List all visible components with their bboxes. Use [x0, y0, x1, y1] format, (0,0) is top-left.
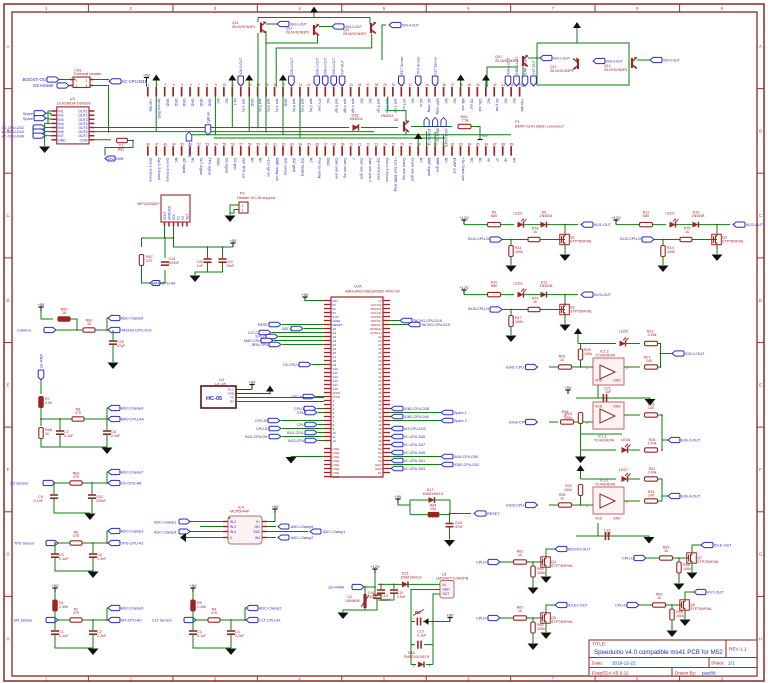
- svg-text:NC: NC: [216, 99, 220, 105]
- svg-text:(O2 gnd): (O2 gnd): [292, 158, 296, 172]
- svg-text:VEX: VEX: [186, 213, 190, 220]
- svg-text:IAT-CPU-A0: IAT-CPU-A0: [121, 619, 142, 623]
- svg-text:TITLE:: TITLE:: [592, 642, 606, 648]
- svg-text:GND: GND: [333, 475, 341, 479]
- svg-text:EVAP out: EVAP out: [453, 158, 457, 173]
- svg-text:IAT-CPU-D43: IAT-CPU-D43: [404, 427, 426, 431]
- svg-text:1uF: 1uF: [605, 390, 612, 394]
- svg-text:4: 4: [586, 504, 588, 508]
- svg-text:V2: V2: [181, 216, 185, 220]
- svg-text:LM2940T-5.0NOPB: LM2940T-5.0NOPB: [436, 576, 469, 580]
- svg-text:BOOST-OUT: BOOST-OUT: [568, 548, 591, 552]
- svg-text:spd 1 Inj: spd 1 Inj: [275, 99, 279, 113]
- svg-text:MIL out: MIL out: [461, 99, 465, 111]
- svg-text:G: G: [6, 552, 9, 557]
- svg-text:39: 39: [468, 83, 472, 87]
- svg-text:68: 68: [332, 142, 336, 146]
- svg-text:28: 28: [375, 83, 379, 87]
- svg-text:71: 71: [358, 142, 362, 146]
- svg-text:3.9k: 3.9k: [45, 401, 52, 405]
- svg-text:ADC-Clamp4: ADC-Clamp4: [121, 407, 143, 411]
- svg-text:IN4: IN4: [255, 536, 260, 540]
- svg-text:55: 55: [223, 142, 227, 146]
- svg-text:1N4004: 1N4004: [540, 214, 553, 218]
- svg-text:VVT out: VVT out: [402, 99, 406, 112]
- svg-text:2N4003: 2N4003: [381, 114, 394, 118]
- svg-text:1: 1: [76, 79, 78, 83]
- svg-text:(O2 pump): (O2 pump): [284, 158, 288, 175]
- svg-text:470: 470: [146, 259, 152, 263]
- svg-text:ADC-Clamp1: ADC-Clamp1: [154, 520, 176, 524]
- svg-text:1k: 1k: [533, 230, 537, 234]
- svg-text:External header: External header: [74, 71, 102, 76]
- svg-text:1N4008: 1N4008: [692, 214, 705, 218]
- svg-text:12v-RAW: 12v-RAW: [107, 156, 124, 161]
- svg-text:IGN3-CPU-D52: IGN3-CPU-D52: [454, 463, 479, 467]
- svg-text:O2 Sensor: O2 Sensor: [10, 482, 29, 486]
- svg-text:VVT-OUT: VVT-OUT: [341, 60, 345, 74]
- svg-text:INJ1-CPU-D8: INJ1-CPU-D8: [468, 237, 491, 241]
- svg-text:F: F: [759, 467, 762, 472]
- svg-text:47nF: 47nF: [455, 525, 464, 529]
- svg-text:84: 84: [468, 142, 472, 146]
- svg-text:1N4004: 1N4004: [349, 117, 362, 121]
- svg-text:ADC-Clamp6: ADC-Clamp6: [121, 607, 143, 611]
- svg-text:IDLE-OUT: IDLE-OUT: [714, 544, 732, 548]
- svg-text:V-: V-: [230, 536, 233, 540]
- svg-text:47: 47: [155, 142, 159, 146]
- svg-text:2.49k: 2.49k: [647, 333, 656, 337]
- svg-text:1: 1: [242, 204, 244, 208]
- svg-text:GND: GND: [326, 158, 330, 166]
- svg-text:0.1uF: 0.1uF: [197, 634, 207, 638]
- svg-text:100k: 100k: [537, 627, 545, 631]
- svg-text:H: H: [759, 636, 762, 641]
- svg-text:470: 470: [211, 611, 217, 615]
- svg-text:15-ROM 71: 15-ROM 71: [427, 129, 431, 146]
- svg-text:74: 74: [383, 142, 387, 146]
- svg-text:8: 8: [207, 83, 209, 87]
- svg-text:GND: GND: [199, 99, 203, 107]
- svg-text:Cyl 4-6 Knock: Cyl 4-6 Knock: [377, 158, 381, 181]
- svg-text:COM: COM: [80, 138, 88, 142]
- svg-text:100k: 100k: [515, 250, 523, 254]
- svg-text:43: 43: [501, 83, 505, 87]
- svg-text:Gnd 1-3 Knock: Gnd 1-3 Knock: [148, 158, 152, 182]
- svg-text:7: 7: [351, 158, 355, 160]
- svg-text:56: 56: [231, 142, 235, 146]
- svg-text:LED7: LED7: [619, 468, 628, 472]
- svg-text:G8: G8: [394, 118, 399, 122]
- svg-text:61: 61: [273, 142, 277, 146]
- svg-text:MCP6044P: MCP6044P: [230, 510, 250, 514]
- svg-text:spd 2 Ign: spd 2 Ign: [351, 99, 355, 114]
- svg-text:AC relay: AC relay: [427, 99, 431, 113]
- svg-text:TPS-CPU-A2: TPS-CPU-A2: [121, 542, 144, 546]
- svg-text:IDLE2-OUT: IDLE2-OUT: [568, 604, 589, 608]
- svg-text:72: 72: [366, 142, 370, 146]
- svg-text:Crank sen gnd: Crank sen gnd: [410, 158, 414, 181]
- svg-text:TC4424EPA: TC4424EPA: [595, 354, 616, 358]
- svg-text:+5v Crank sen: +5v Crank sen: [461, 158, 465, 181]
- svg-text:1.1: 1.1: [740, 647, 747, 652]
- svg-text:NC: NC: [453, 99, 457, 105]
- svg-text:73: 73: [375, 142, 379, 146]
- svg-text:4: 4: [86, 84, 88, 88]
- svg-text:+5V: +5V: [143, 72, 151, 77]
- svg-text:1N5819WLG: 1N5819WLG: [400, 575, 421, 579]
- svg-text:+5V: +5V: [301, 292, 309, 297]
- svg-text:1uF: 1uF: [197, 264, 204, 268]
- svg-text:STP75NF06L: STP75NF06L: [551, 620, 573, 624]
- svg-text:2: 2: [242, 209, 244, 213]
- svg-text:VVT-OUT: VVT-OUT: [532, 60, 536, 74]
- svg-text:48: 48: [163, 142, 167, 146]
- svg-text:GND: GND: [191, 99, 195, 107]
- svg-text:NC: NC: [250, 158, 254, 164]
- svg-text:69: 69: [341, 142, 345, 146]
- svg-text:60: 60: [265, 142, 269, 146]
- svg-text:Oil p sw: Oil p sw: [495, 99, 499, 112]
- svg-text:A: A: [759, 44, 762, 49]
- svg-text:470: 470: [73, 534, 79, 538]
- svg-text:MPX4250AP: MPX4250AP: [137, 202, 159, 206]
- svg-text:TACHO-CPU-D19: TACHO-CPU-D19: [121, 329, 152, 333]
- svg-text:+5V: +5V: [248, 379, 256, 384]
- svg-text:Speeduino v4.0 compatible ms41: Speeduino v4.0 compatible ms41 PCB for M…: [594, 649, 723, 656]
- svg-text:+5V: +5V: [37, 302, 45, 307]
- svg-text:37: 37: [451, 83, 455, 87]
- svg-text:80: 80: [434, 142, 438, 146]
- svg-text:ISLNVSON3P3: ISLNVSON3P3: [550, 69, 573, 73]
- svg-text:I/C-CPU-D47: I/C-CPU-D47: [404, 443, 425, 447]
- svg-text:58: 58: [248, 142, 252, 146]
- svg-text:1k: 1k: [518, 553, 522, 557]
- svg-text:O2 signal: O2 signal: [225, 158, 229, 173]
- svg-text:53: 53: [206, 142, 210, 146]
- svg-text:Date:: Date:: [592, 661, 603, 666]
- svg-text:63: 63: [290, 142, 294, 146]
- svg-text:0.5uF: 0.5uF: [397, 595, 406, 599]
- svg-text:IGN2-CPU-D38: IGN2-CPU-D38: [404, 407, 429, 411]
- svg-text:52: 52: [197, 142, 201, 146]
- svg-text:B: B: [759, 129, 762, 134]
- svg-text:GND: GND: [613, 379, 621, 383]
- svg-text:75: 75: [392, 142, 396, 146]
- svg-text:0.1uF: 0.1uF: [59, 634, 69, 638]
- svg-text:29: 29: [383, 83, 387, 87]
- svg-text:14E680K: 14E680K: [345, 599, 361, 603]
- svg-text:ADC-Clamp6: ADC-Clamp6: [291, 525, 313, 529]
- svg-text:Cam sen pwr: Cam sen pwr: [334, 158, 338, 180]
- svg-text:1k: 1k: [45, 432, 49, 436]
- svg-text:100k: 100k: [667, 250, 675, 254]
- svg-text:Cam sen sig: Cam sen sig: [343, 158, 347, 178]
- svg-text:EKP relay: EKP relay: [436, 99, 440, 115]
- svg-text:1k: 1k: [560, 497, 564, 501]
- svg-text:TC4424EPA: TC4424EPA: [595, 483, 616, 487]
- svg-text:IN-5: IN-5: [230, 530, 236, 534]
- svg-text:+5V: +5V: [394, 494, 402, 499]
- svg-text:2.2nF: 2.2nF: [235, 634, 245, 638]
- svg-text:1k: 1k: [685, 230, 689, 234]
- svg-text:spd 5 Inj: spd 5 Inj: [258, 99, 262, 113]
- svg-text:STP75NF06L: STP75NF06L: [722, 239, 744, 243]
- svg-text:2.2nF: 2.2nF: [97, 557, 107, 561]
- svg-text:VOUT: VOUT: [163, 211, 167, 220]
- svg-text:I/C-CPU-D45: I/C-CPU-D45: [404, 435, 425, 439]
- svg-text:V+: V+: [256, 520, 260, 524]
- svg-text:NC: NC: [478, 158, 482, 164]
- svg-text:C: C: [759, 213, 762, 218]
- svg-text:NC: NC: [410, 99, 414, 105]
- svg-text:IGN-1-OUT: IGN-1-OUT: [553, 57, 570, 61]
- svg-text:86: 86: [485, 142, 489, 146]
- svg-text:50: 50: [180, 142, 184, 146]
- svg-text:GND: GND: [174, 99, 178, 107]
- svg-text:INJ2-OUT: INJ2-OUT: [746, 223, 764, 227]
- svg-text:NC: NC: [503, 99, 507, 105]
- svg-text:LED3: LED3: [513, 282, 522, 286]
- svg-text:IGN-3-OUT: IGN-3-OUT: [239, 58, 243, 75]
- svg-text:+5V: +5V: [229, 238, 237, 243]
- svg-text:100k: 100k: [584, 352, 592, 356]
- svg-text:TPS signal: TPS signal: [208, 158, 212, 176]
- svg-text:2.2nF: 2.2nF: [111, 434, 121, 438]
- svg-text:1k: 1k: [560, 358, 564, 362]
- svg-text:I/C-CPU-D31: I/C-CPU-D31: [122, 79, 147, 84]
- svg-text:1k: 1k: [62, 311, 66, 315]
- svg-text:36: 36: [442, 83, 446, 87]
- svg-text:(O2 heater): (O2 heater): [301, 158, 305, 176]
- svg-text:Gnd 4-6 Knock: Gnd 4-6 Knock: [385, 158, 389, 182]
- svg-text:C: C: [6, 213, 9, 218]
- svg-text:47: 47: [495, 158, 499, 162]
- svg-text:100k: 100k: [515, 320, 523, 324]
- svg-text:49: 49: [172, 142, 176, 146]
- svg-text:CLT-CPU-A1: CLT-CPU-A1: [259, 619, 281, 623]
- svg-text:spd 5 Ign: spd 5 Ign: [377, 99, 381, 114]
- svg-text:4: 4: [173, 83, 175, 87]
- svg-text:680: 680: [491, 284, 497, 288]
- svg-text:100k: 100k: [564, 488, 572, 492]
- svg-text:IGN-1-OUT: IGN-1-OUT: [290, 23, 307, 27]
- svg-text:MAF signal: MAF signal: [427, 158, 431, 176]
- svg-text:2018-12-22: 2018-12-22: [612, 661, 636, 666]
- svg-text:IAT Sensor: IAT Sensor: [14, 619, 33, 623]
- svg-text:GND: GND: [613, 517, 621, 521]
- svg-text:+12V: +12V: [459, 285, 469, 290]
- svg-text:46: 46: [147, 142, 151, 146]
- svg-text:IN-2: IN-2: [230, 520, 236, 524]
- svg-text:Cam sen pwr 2: Cam sen pwr 2: [368, 158, 372, 182]
- svg-text:O2-CPU-A8: O2-CPU-A8: [121, 482, 141, 486]
- svg-text:GND: GND: [58, 138, 66, 142]
- svg-text:spd 1 Inj: spd 1 Inj: [241, 99, 245, 113]
- svg-text:STP75NF06L: STP75NF06L: [570, 309, 592, 313]
- svg-text:0.1uF: 0.1uF: [59, 557, 69, 561]
- svg-text:LED1: LED1: [513, 212, 522, 216]
- svg-text:46: 46: [486, 158, 490, 162]
- svg-text:Blank GL: Blank GL: [436, 129, 440, 142]
- svg-text:ISLNVSON3P3: ISLNVSON3P3: [232, 25, 255, 29]
- svg-text:ADC-Clamp1: ADC-Clamp1: [323, 530, 345, 534]
- svg-text:LED5: LED5: [619, 330, 628, 334]
- svg-text:LED2: LED2: [665, 212, 674, 216]
- svg-text:19: 19: [299, 83, 303, 87]
- svg-text:INJ1-OUT: INJ1-OUT: [594, 223, 612, 227]
- svg-text:Spare 2: Spare 2: [454, 419, 467, 423]
- svg-text:77: 77: [408, 142, 412, 146]
- svg-text:ARDUINO-MEGA2560-PRO-5V: ARDUINO-MEGA2560-PRO-5V: [345, 288, 401, 293]
- svg-text:0.1uF: 0.1uF: [34, 499, 44, 503]
- svg-text:STP75NF06L: STP75NF06L: [697, 560, 719, 564]
- svg-text:62: 62: [282, 142, 286, 146]
- svg-text:+Ub Wa: +Ub Wa: [520, 99, 524, 112]
- svg-text:470: 470: [73, 611, 79, 615]
- svg-text:1k: 1k: [518, 609, 522, 613]
- svg-text:NC: NC: [486, 99, 490, 105]
- svg-text:100k: 100k: [676, 614, 684, 618]
- svg-text:Gnd 4-6 Knock: Gnd 4-6 Knock: [165, 158, 169, 182]
- svg-text:IGN-3-OUT: IGN-3-OUT: [324, 58, 328, 75]
- svg-text:48: 48: [503, 158, 507, 162]
- svg-text:64: 64: [299, 142, 303, 146]
- svg-text:Crank-in: Crank-in: [17, 329, 31, 333]
- svg-text:LED6: LED6: [621, 438, 630, 442]
- svg-text:13: 13: [248, 83, 252, 87]
- svg-text:TPS Sensor: TPS Sensor: [417, 56, 421, 75]
- svg-text:+12V: +12V: [459, 215, 469, 220]
- svg-text:32: 32: [408, 83, 412, 87]
- svg-text:1: 1: [147, 83, 149, 87]
- svg-text:2.49k: 2.49k: [647, 442, 656, 446]
- svg-text:INJ3-OUT: INJ3-OUT: [594, 293, 612, 297]
- svg-text:1N1: 1N1: [254, 525, 260, 529]
- svg-text:VCC: VCC: [172, 213, 176, 220]
- svg-text:2: 2: [86, 79, 88, 83]
- svg-text:+5V: +5V: [565, 386, 572, 390]
- svg-text:15: 15: [265, 83, 269, 87]
- svg-text:pazi88: pazi88: [702, 670, 716, 675]
- svg-text:NC: NC: [444, 158, 448, 164]
- svg-text:ADC-Clamp2: ADC-Clamp2: [259, 607, 281, 611]
- svg-text:GND: GND: [182, 99, 186, 107]
- svg-text:Sheet:: Sheet:: [711, 661, 724, 666]
- svg-text:OUT: OUT: [443, 592, 450, 596]
- svg-text:Cyl 1-3 Knock: Cyl 1-3 Knock: [157, 158, 161, 181]
- svg-text:25: 25: [349, 83, 353, 87]
- svg-text:+5V: +5V: [481, 134, 488, 138]
- svg-text:+12v from DME relay: +12v from DME relay: [394, 158, 398, 192]
- svg-text:ULN2803A DS0099: ULN2803A DS0099: [57, 101, 91, 106]
- svg-text:Fuel pu relay: Fuel pu relay: [317, 158, 321, 179]
- svg-text:STP75NF06L: STP75NF06L: [570, 239, 592, 243]
- svg-text:GND: GND: [250, 99, 254, 107]
- svg-text:1k: 1k: [87, 322, 91, 326]
- svg-text:RX: RX: [230, 400, 234, 404]
- svg-text:NC: NC: [368, 99, 372, 105]
- svg-text:ADC-Clamp4: ADC-Clamp4: [154, 530, 176, 534]
- svg-text:6: 6: [190, 83, 192, 87]
- svg-text:Header HC-06 support: Header HC-06 support: [237, 196, 276, 200]
- svg-text:2.2nF: 2.2nF: [97, 634, 107, 638]
- svg-text:NC: NC: [258, 158, 262, 164]
- svg-text:KNK-1-OUT: KNK-1-OUT: [515, 57, 519, 75]
- svg-text:D: D: [6, 298, 9, 303]
- svg-text:F: F: [7, 467, 10, 472]
- svg-text:ADC-Clamp5: ADC-Clamp5: [121, 317, 143, 321]
- svg-text:680: 680: [643, 214, 649, 218]
- svg-text:220nF: 220nF: [96, 499, 107, 503]
- svg-text:1N5819WLG: 1N5819WLG: [422, 492, 443, 496]
- svg-text:IGN-1-OUT: IGN-1-OUT: [685, 352, 705, 356]
- svg-text:NC: NC: [419, 158, 423, 164]
- svg-text:59: 59: [256, 142, 260, 146]
- svg-text:+12V: +12V: [611, 215, 621, 220]
- svg-text:GND: GND: [613, 405, 621, 409]
- svg-text:9: 9: [215, 83, 217, 87]
- svg-text:IGN-3-OUT: IGN-3-OUT: [606, 60, 623, 64]
- svg-text:88: 88: [501, 142, 505, 146]
- svg-text:I/C-CPU-D49: I/C-CPU-D49: [404, 451, 425, 455]
- svg-text:7: 7: [198, 83, 200, 87]
- svg-text:+5V: +5V: [189, 583, 197, 588]
- svg-text:2.49k: 2.49k: [197, 605, 206, 609]
- svg-text:I/C-CPU-D53: I/C-CPU-D53: [404, 467, 425, 471]
- svg-text:100nF: 100nF: [169, 261, 180, 265]
- svg-text:34: 34: [425, 83, 429, 87]
- svg-text:GROUND: GROUND: [168, 205, 172, 220]
- svg-text:TACHO-CPU-D19: TACHO-CPU-D19: [421, 323, 450, 327]
- svg-text:D: D: [759, 298, 762, 303]
- svg-text:66: 66: [316, 142, 320, 146]
- svg-text:Crank sen sig: Crank sen sig: [402, 158, 406, 180]
- svg-text:10: 10: [223, 83, 227, 87]
- svg-text:12v-RAW: 12v-RAW: [40, 353, 44, 368]
- svg-text:Spare 1: Spare 1: [454, 411, 467, 415]
- svg-text:NC: NC: [174, 158, 178, 164]
- svg-text:2.49k: 2.49k: [647, 471, 656, 475]
- svg-text:10nF: 10nF: [226, 264, 235, 268]
- svg-text:CLT Sensor: CLT Sensor: [152, 619, 173, 623]
- svg-text:TPS Sensor: TPS Sensor: [14, 542, 35, 546]
- svg-text:67: 67: [324, 142, 328, 146]
- svg-text:STP75NF06L: STP75NF06L: [551, 564, 573, 568]
- svg-text:+12v ign sw: +12v ign sw: [267, 158, 271, 177]
- svg-text:NC: NC: [225, 99, 229, 105]
- svg-text:1/1: 1/1: [728, 661, 735, 666]
- svg-text:Drawn By:: Drawn By:: [675, 670, 696, 675]
- svg-text:spd 4 Ign: spd 4 Ign: [343, 99, 347, 114]
- svg-text:V1: V1: [177, 216, 181, 220]
- svg-text:Crank in+: Crank in+: [188, 142, 192, 157]
- svg-text:CLT signal: CLT signal: [199, 158, 203, 175]
- svg-text:KNK-2-OUT: KNK-2-OUT: [524, 57, 528, 75]
- svg-text:5: 5: [626, 500, 628, 504]
- svg-text:IAT signal: IAT signal: [182, 158, 186, 174]
- svg-text:1k: 1k: [664, 549, 668, 553]
- svg-text:12: 12: [333, 439, 337, 443]
- svg-text:O2 Heater: O2 Heater: [33, 83, 54, 88]
- svg-text:CPU-D7: CPU-D7: [256, 427, 269, 431]
- svg-text:E: E: [7, 382, 10, 387]
- svg-text:MAF gnd: MAF gnd: [436, 158, 440, 173]
- svg-text:I/C-CPU-D46: I/C-CPU-D46: [2, 134, 24, 138]
- svg-text:40: 40: [476, 83, 480, 87]
- svg-text:spd 6 Inj: spd 6 Inj: [292, 99, 296, 113]
- svg-text:83: 83: [459, 142, 463, 146]
